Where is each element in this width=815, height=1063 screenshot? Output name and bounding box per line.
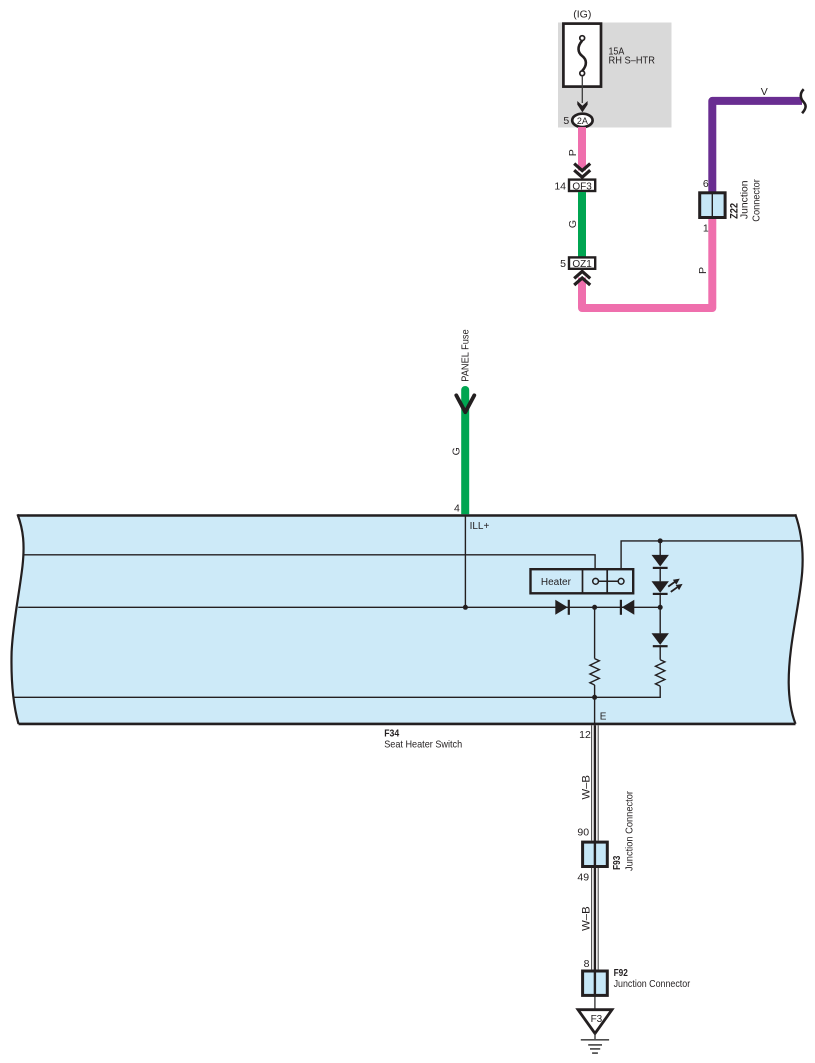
diode D1 — [659, 541, 661, 555]
svg-text:F93: F93 — [611, 856, 623, 870]
junction dot row left — [592, 605, 597, 610]
ground hatch lines — [581, 1039, 609, 1041]
LED D2 — [652, 581, 669, 593]
F34 bottom border — [19, 723, 796, 726]
connector 2A oval — [572, 114, 592, 127]
F34 top border — [18, 514, 796, 517]
svg-text:8: 8 — [584, 958, 590, 970]
svg-text:(IG): (IG) — [573, 9, 591, 21]
wire W-B outlines lower run — [591, 868, 593, 970]
svg-text:P: P — [697, 267, 709, 274]
svg-text:Seat Heater Switch: Seat Heater Switch — [384, 739, 462, 751]
svg-text:Junction Connector: Junction Connector — [614, 978, 691, 990]
svg-text:OZ1: OZ1 — [572, 259, 592, 270]
diode D3 (row, pointing right) — [555, 600, 567, 615]
wire R1 to bottom row — [594, 685, 596, 697]
junction dot node E — [592, 695, 597, 700]
svg-text:4: 4 — [454, 503, 460, 515]
svg-text:PANEL Fuse: PANEL Fuse — [460, 329, 472, 381]
svg-text:Junction Connector: Junction Connector — [624, 791, 636, 871]
wire switch to top bus — [621, 541, 800, 569]
junction connector Z22 — [700, 193, 725, 218]
svg-text:90: 90 — [577, 826, 589, 838]
diode D5 — [659, 607, 661, 633]
svg-text:P: P — [567, 149, 579, 156]
bus line 2 diode row — [18, 606, 660, 608]
wire to resistor R1 — [594, 607, 596, 658]
heater switch box — [531, 569, 634, 593]
fuse panel (IG) background — [558, 23, 672, 128]
arrow from PANEL fuse — [456, 395, 474, 412]
resistor R1 — [590, 659, 599, 685]
ground triangle F3 — [578, 1010, 612, 1034]
junction dot ILL feed — [463, 605, 468, 610]
svg-text:2A: 2A — [577, 116, 588, 126]
svg-text:Junction: Junction — [739, 180, 751, 219]
pin ILL+ feed wire — [464, 516, 466, 607]
wire V purple (Z22 up and right) — [712, 101, 802, 192]
svg-text:49: 49 — [577, 872, 589, 884]
svg-text:5: 5 — [560, 258, 566, 270]
junction dot row right — [658, 605, 663, 610]
connector OZ1 — [569, 257, 595, 268]
svg-text:G: G — [451, 447, 463, 455]
bus line 3 bottom row — [14, 686, 661, 697]
svg-text:RH S–HTR: RH S–HTR — [609, 55, 656, 67]
wire fuse to connector 2A — [581, 76, 583, 103]
wire G green (OF3 to OZ1) — [578, 192, 586, 257]
chevron splice pointing down — [574, 164, 590, 178]
svg-text:1: 1 — [703, 222, 709, 234]
F34 left torn edge — [11, 514, 23, 724]
junction connector F93 — [583, 842, 608, 866]
wire node E to pin 12 — [594, 697, 596, 725]
junction dot top bus — [658, 538, 663, 543]
svg-text:W–B: W–B — [581, 906, 593, 931]
svg-text:6: 6 — [703, 178, 709, 190]
svg-text:OF3: OF3 — [572, 181, 592, 192]
svg-text:Connector: Connector — [751, 179, 763, 222]
wire F92 to ground — [594, 997, 596, 1010]
connector OF3 — [569, 180, 595, 191]
wire W-B outlines upper run — [591, 725, 593, 841]
svg-text:G: G — [567, 220, 579, 228]
diode D4 (row, pointing left) — [622, 600, 634, 615]
svg-text:5: 5 — [563, 115, 569, 127]
svg-text:V: V — [761, 86, 768, 98]
wire G green (panel fuse feed) — [461, 390, 469, 516]
resistor R2 — [656, 660, 665, 686]
switch F34 body fill — [11, 514, 802, 724]
wire break symbol — [801, 89, 806, 113]
bus line 1 to switch — [24, 555, 596, 569]
svg-text:ILL+: ILL+ — [470, 521, 490, 532]
wire P pink L-shape (OZ1 splice to Z22) — [582, 218, 712, 308]
switch contacts — [593, 578, 599, 584]
F34 right torn edge — [789, 514, 803, 724]
wire P pink (2A to OF3) — [578, 127, 586, 171]
svg-text:F3: F3 — [591, 1014, 603, 1025]
LED emission arrows — [668, 579, 682, 592]
junction connector F92 — [583, 971, 608, 995]
arrowhead into 2A — [577, 101, 587, 112]
chevron splice pointing up — [574, 271, 590, 285]
svg-text:E: E — [600, 711, 607, 722]
svg-text:12: 12 — [579, 729, 591, 741]
svg-text:F34: F34 — [384, 727, 399, 739]
svg-text:14: 14 — [554, 180, 566, 192]
svg-text:Heater: Heater — [541, 577, 572, 588]
wire W-B black stripe (center) — [594, 725, 596, 997]
svg-text:W–B: W–B — [581, 775, 593, 800]
Z22 divider — [711, 193, 713, 217]
ground stem — [594, 1034, 596, 1040]
fuse 15A RH S-HTR — [563, 24, 601, 87]
